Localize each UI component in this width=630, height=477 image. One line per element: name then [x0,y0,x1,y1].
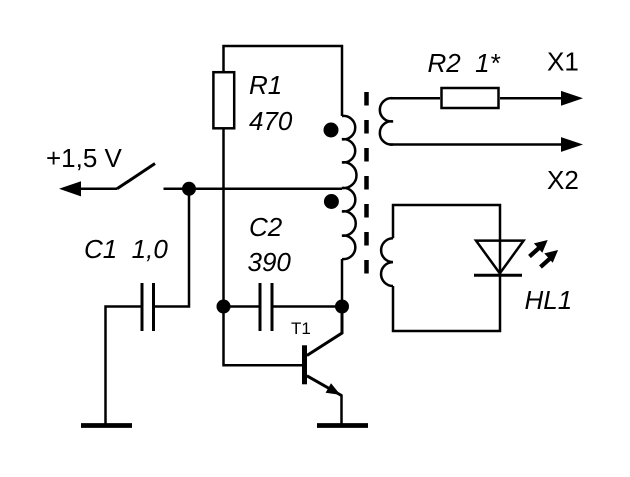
wire: secondary bottom to X2 [390,143,562,146]
switch SA1 lever [117,164,155,189]
terminal X1 arrow [561,91,583,106]
supply arrow to +1,5 V [59,181,81,196]
svg-text:390: 390 [248,247,292,277]
wire: node B to C2 left plate [224,305,261,308]
svg-text:HL1: HL1 [525,285,573,315]
wire: arrow to switch [79,188,117,191]
svg-text:X2: X2 [547,165,579,195]
ground (left) [81,423,132,428]
wire: node A down to C1 right plate [155,189,189,307]
emitter with arrow [307,376,342,396]
wire: secondary top to R2 [390,97,440,100]
svg-text:C1 1,0: C1 1,0 [84,234,168,264]
svg-text:T1: T1 [291,319,311,338]
transistor T1 [302,345,307,384]
wire: emitter down to ground [340,395,343,425]
LED HL1 [476,241,524,274]
resistor R1 [213,72,234,128]
wire: collector from node C [307,307,342,356]
wire: winding bottom to node C [341,259,344,307]
node C junction dot [335,300,349,314]
ground (right) [317,423,368,428]
transformer feedback winding (2 turns) to HL1 loop [381,238,393,286]
wire: node B down and right to T1 base [224,307,303,366]
svg-text:R1: R1 [249,70,282,100]
LED emission arrow 2 [541,250,559,267]
wire: R2 to X1 [500,97,562,100]
transformer T primary winding (6 turns, tap at supply rail) [342,116,357,259]
svg-text:C2: C2 [249,212,283,242]
capacitor C2 [259,283,262,331]
wire: C2 right plate to node C [272,305,342,308]
wire: switch contact to transformer tap [164,188,343,191]
LED emission arrow 1 [530,240,548,257]
node A junction dot [182,182,196,196]
transformer secondary winding (output, 2 turns) [380,98,393,144]
svg-text:R2 1*: R2 1* [428,48,501,78]
svg-text:470: 470 [249,106,293,136]
wire: HL1 loop rectangle [393,205,500,331]
wire top: R1 top lead, top rail, down to primary winding [224,46,343,116]
transformer core (dashed) [364,92,369,274]
node B junction dot [217,300,231,314]
wire: R1 bottom lead down to node B [222,130,225,307]
svg-text:X1: X1 [547,47,579,77]
polarity dot (primary top) [324,123,339,138]
terminal X2 arrow [561,137,583,152]
resistor R2 [442,88,499,108]
polarity dot (primary bottom) [324,194,339,209]
capacitor C1 [141,283,144,331]
wire: C1 left plate to ground [106,307,143,425]
svg-text:+1,5 V: +1,5 V [46,143,123,173]
